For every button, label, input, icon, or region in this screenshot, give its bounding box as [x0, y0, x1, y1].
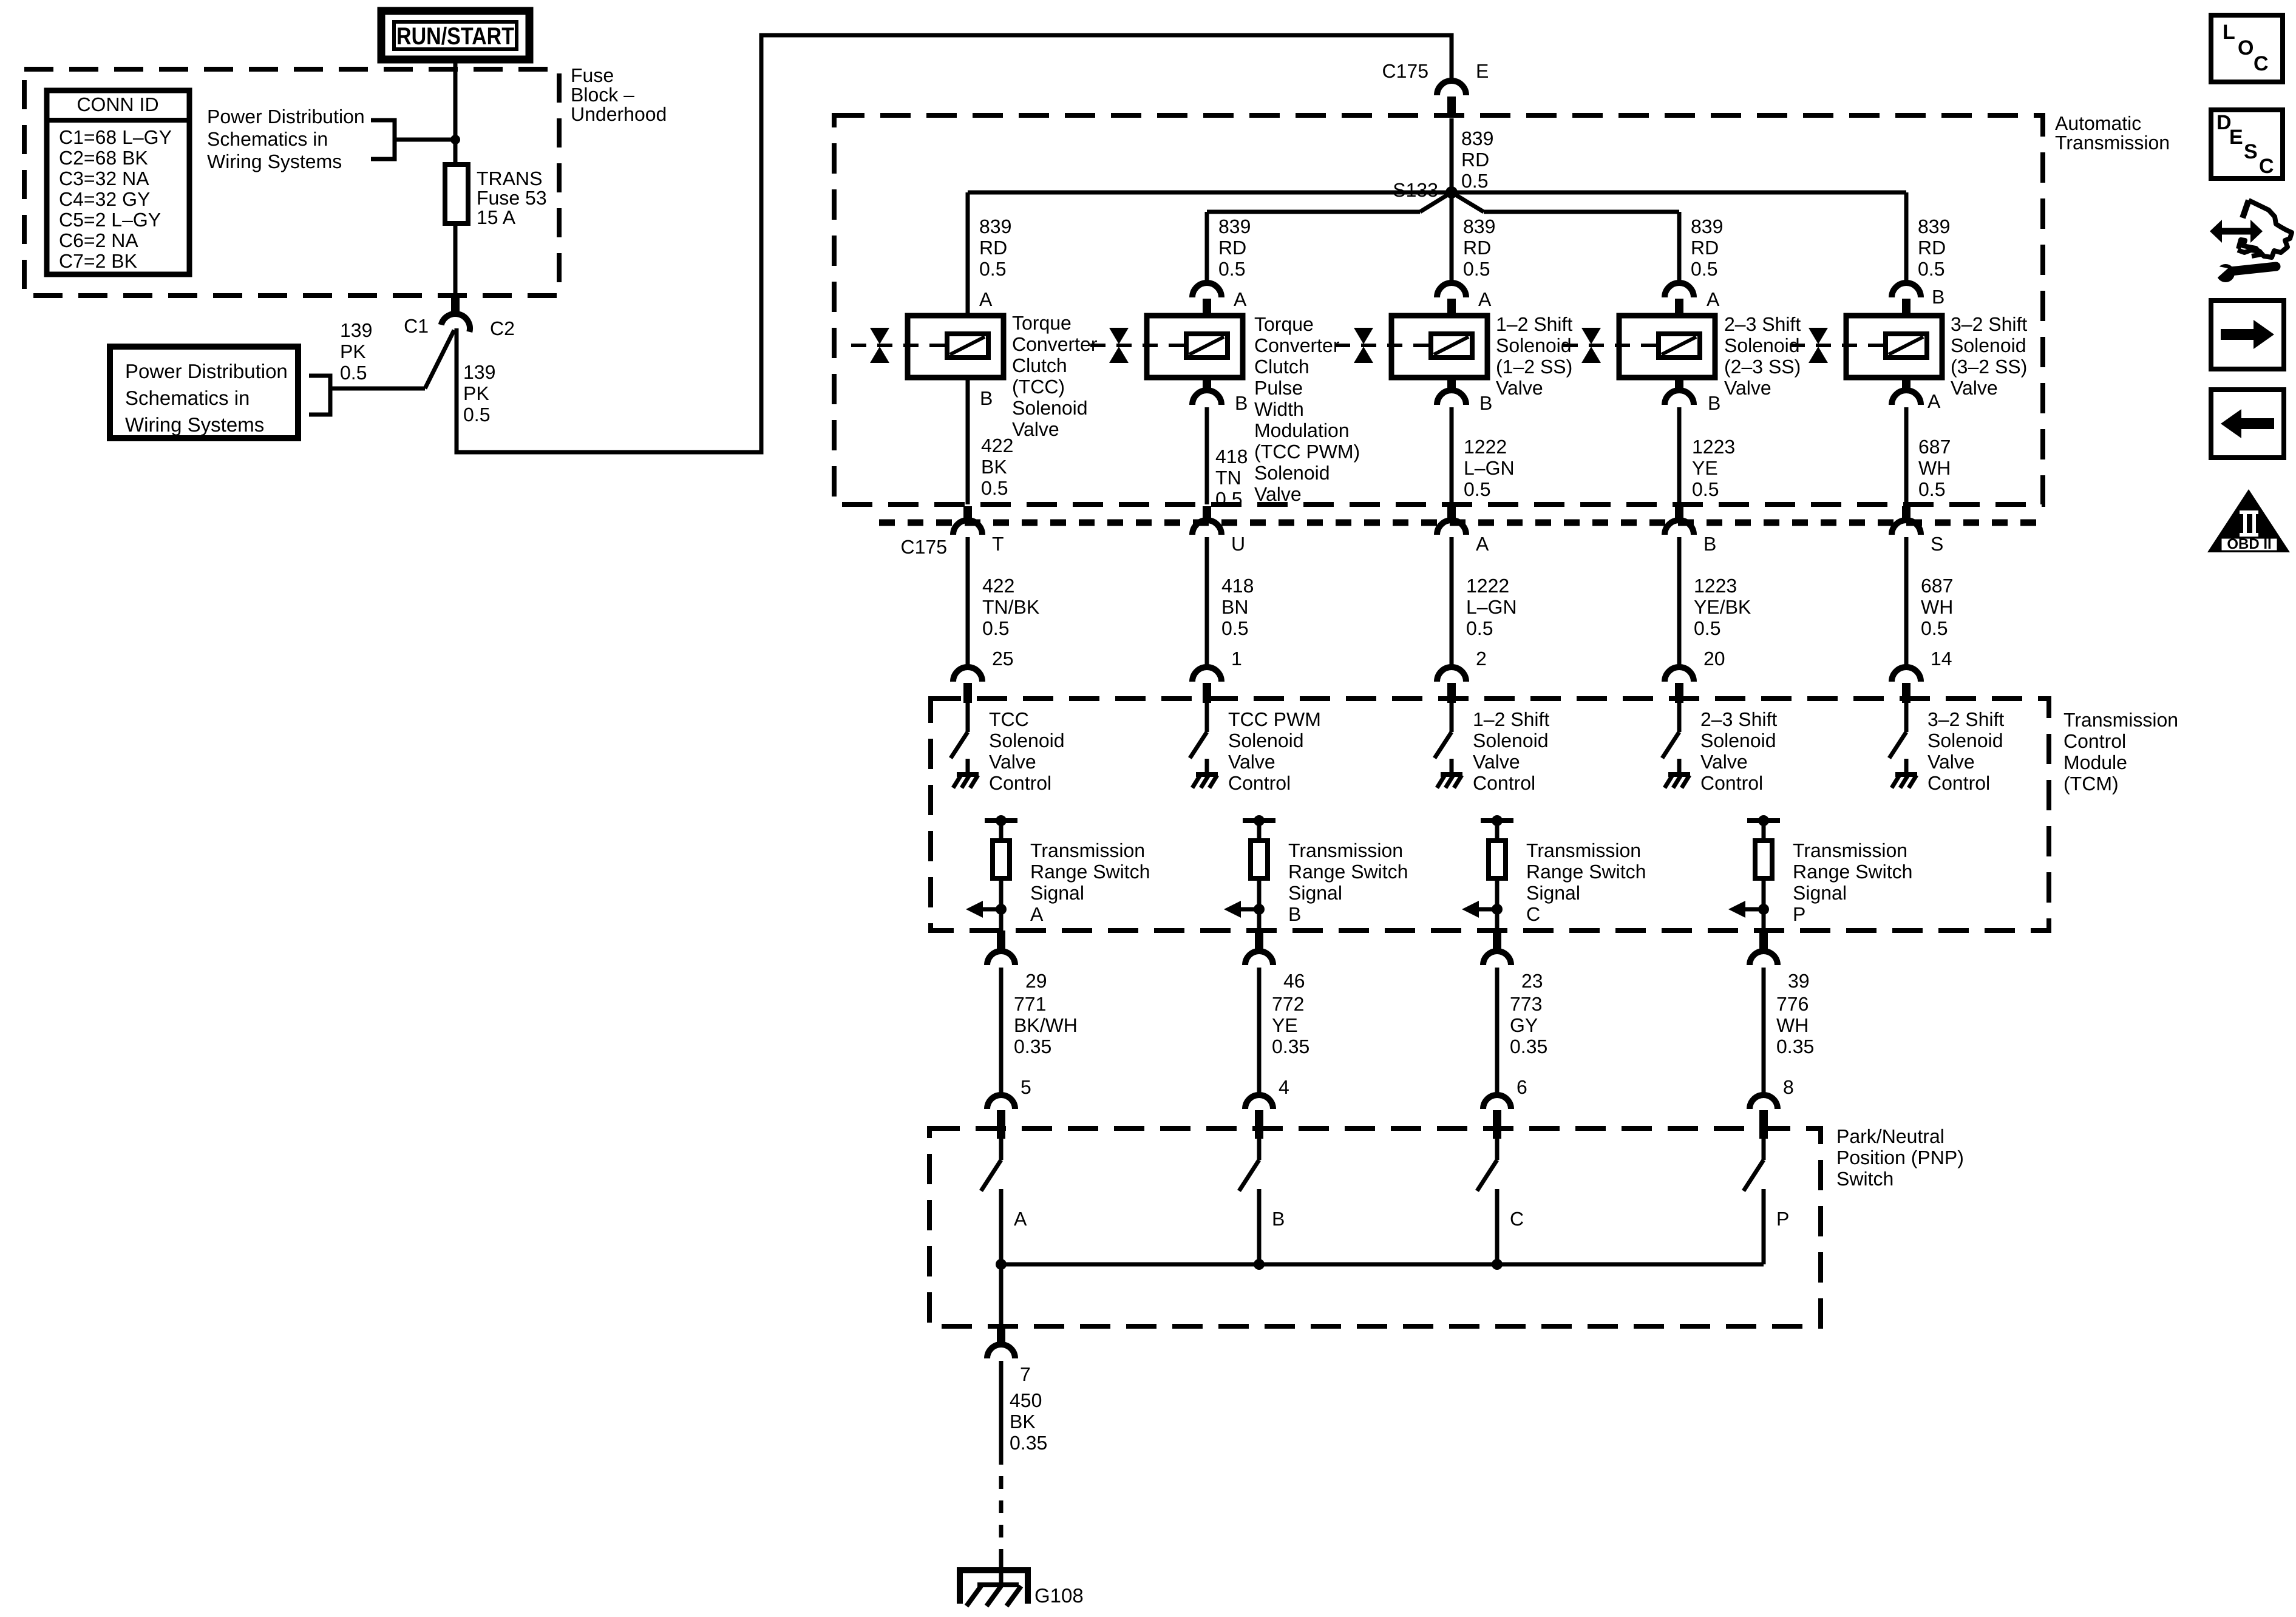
svg-text:T: T	[992, 533, 1004, 555]
svg-text:S: S	[2244, 140, 2258, 163]
svg-text:0.35: 0.35	[1510, 1036, 1547, 1057]
svg-text:8: 8	[1783, 1076, 1794, 1098]
svg-text:418: 418	[1215, 446, 1248, 467]
svg-text:(TCC): (TCC)	[1012, 376, 1065, 398]
svg-text:3–2 Shift: 3–2 Shift	[1927, 708, 2004, 730]
svg-text:L–GN: L–GN	[1464, 457, 1515, 479]
svg-text:1: 1	[1231, 648, 1242, 670]
svg-text:Module: Module	[2063, 751, 2127, 773]
svg-text:0.5: 0.5	[981, 477, 1008, 499]
svg-text:Solenoid: Solenoid	[1700, 730, 1776, 751]
svg-text:Valve: Valve	[1700, 751, 1748, 773]
svg-text:B: B	[980, 387, 993, 409]
svg-text:(TCC PWM): (TCC PWM)	[1254, 441, 1360, 463]
svg-text:Solenoid: Solenoid	[1228, 730, 1304, 751]
svg-text:C: C	[1526, 903, 1540, 925]
svg-text:Signal: Signal	[1793, 882, 1847, 904]
svg-text:46: 46	[1283, 970, 1305, 992]
svg-text:772: 772	[1272, 993, 1304, 1015]
svg-text:Solenoid: Solenoid	[1927, 730, 2003, 751]
svg-text:(TCM): (TCM)	[2063, 773, 2119, 795]
svg-text:RUN/START: RUN/START	[396, 23, 514, 50]
svg-text:Transmission: Transmission	[1526, 839, 1641, 861]
svg-text:YE: YE	[1692, 457, 1718, 479]
svg-text:P: P	[1793, 903, 1805, 925]
svg-text:Power Distribution: Power Distribution	[207, 106, 365, 127]
svg-text:A: A	[1234, 288, 1247, 310]
svg-text:Transmission: Transmission	[1793, 839, 1907, 861]
svg-text:C5=2 L–GY: C5=2 L–GY	[59, 209, 161, 231]
svg-text:C1=68 L–GY: C1=68 L–GY	[59, 126, 172, 148]
svg-text:TN/BK: TN/BK	[982, 596, 1039, 618]
svg-text:23: 23	[1521, 970, 1543, 992]
svg-text:Valve: Valve	[1951, 377, 1998, 399]
svg-text:0.5: 0.5	[1918, 258, 1944, 280]
svg-text:422: 422	[982, 575, 1014, 597]
svg-text:WH: WH	[1776, 1014, 1809, 1036]
svg-text:776: 776	[1776, 993, 1809, 1015]
svg-text:1222: 1222	[1464, 436, 1507, 458]
svg-text:139: 139	[463, 361, 495, 383]
svg-text:Switch: Switch	[1836, 1168, 1894, 1190]
svg-text:839: 839	[1691, 215, 1723, 237]
svg-text:Converter: Converter	[1012, 333, 1098, 355]
svg-text:20: 20	[1703, 648, 1725, 670]
svg-text:0.5: 0.5	[1464, 478, 1490, 500]
svg-text:RD: RD	[1463, 237, 1491, 259]
svg-text:25: 25	[992, 648, 1014, 670]
svg-text:C175: C175	[1382, 60, 1429, 82]
svg-text:839: 839	[1461, 127, 1493, 149]
svg-text:0.35: 0.35	[1776, 1036, 1814, 1057]
svg-text:Solenoid: Solenoid	[1724, 334, 1800, 356]
svg-text:CONN ID: CONN ID	[76, 93, 158, 115]
svg-text:0.5: 0.5	[1461, 170, 1488, 192]
svg-text:YE/BK: YE/BK	[1694, 596, 1751, 618]
svg-text:Control: Control	[1700, 772, 1763, 794]
svg-text:Signal: Signal	[1030, 882, 1084, 904]
svg-text:PK: PK	[463, 382, 489, 404]
svg-text:Solenoid: Solenoid	[1473, 730, 1549, 751]
svg-text:Wiring Systems: Wiring Systems	[125, 413, 264, 436]
svg-text:PK: PK	[340, 341, 366, 362]
svg-text:6: 6	[1517, 1076, 1527, 1098]
svg-text:Range Switch: Range Switch	[1793, 861, 1912, 883]
svg-text:P: P	[1776, 1208, 1789, 1230]
svg-text:0.5: 0.5	[1218, 258, 1245, 280]
svg-text:139: 139	[340, 319, 372, 341]
svg-text:0.5: 0.5	[463, 404, 490, 425]
svg-text:(2–3 SS): (2–3 SS)	[1724, 356, 1801, 378]
svg-text:Valve: Valve	[1473, 751, 1520, 773]
svg-text:Solenoid: Solenoid	[1496, 334, 1572, 356]
svg-text:450: 450	[1010, 1389, 1042, 1411]
svg-text:G108: G108	[1034, 1584, 1084, 1607]
svg-text:B: B	[1932, 286, 1944, 308]
svg-text:0.5: 0.5	[1221, 617, 1248, 639]
svg-text:Fuse: Fuse	[571, 64, 614, 86]
svg-text:Pulse: Pulse	[1254, 377, 1303, 399]
svg-text:773: 773	[1510, 993, 1542, 1015]
svg-text:TCC PWM: TCC PWM	[1228, 708, 1321, 730]
svg-text:C3=32 NA: C3=32 NA	[59, 168, 149, 189]
svg-text:Automatic: Automatic	[2055, 112, 2141, 134]
svg-text:Position (PNP): Position (PNP)	[1836, 1147, 1964, 1168]
svg-text:418: 418	[1221, 575, 1254, 597]
svg-text:0.5: 0.5	[1918, 478, 1945, 500]
svg-text:Valve: Valve	[1724, 377, 1771, 399]
svg-text:839: 839	[1918, 215, 1950, 237]
svg-text:7: 7	[1020, 1363, 1031, 1385]
svg-text:771: 771	[1014, 993, 1046, 1015]
svg-text:A: A	[979, 288, 993, 310]
svg-text:39: 39	[1788, 970, 1810, 992]
svg-text:Schematics in: Schematics in	[207, 128, 328, 150]
svg-text:0.5: 0.5	[1215, 488, 1242, 510]
svg-text:839: 839	[1218, 215, 1251, 237]
svg-text:14: 14	[1931, 648, 1952, 670]
svg-text:2–3 Shift: 2–3 Shift	[1724, 313, 1801, 335]
svg-text:687: 687	[1918, 436, 1951, 458]
svg-text:1223: 1223	[1694, 575, 1737, 597]
svg-text:A: A	[1030, 903, 1044, 925]
svg-text:Clutch: Clutch	[1012, 354, 1067, 376]
svg-text:0.5: 0.5	[1692, 478, 1719, 500]
svg-text:RD: RD	[1691, 237, 1719, 259]
svg-text:C175: C175	[901, 536, 948, 558]
svg-text:Clutch: Clutch	[1254, 356, 1309, 378]
svg-text:Valve: Valve	[1496, 377, 1543, 399]
svg-text:O: O	[2238, 36, 2254, 59]
svg-text:S133: S133	[1393, 179, 1438, 201]
svg-text:15 A: 15 A	[477, 206, 516, 228]
svg-text:C: C	[2254, 52, 2269, 75]
svg-text:Fuse 53: Fuse 53	[477, 187, 547, 209]
svg-text:29: 29	[1025, 970, 1047, 992]
svg-text:Schematics in: Schematics in	[125, 387, 250, 409]
svg-text:GY: GY	[1510, 1014, 1538, 1036]
svg-text:839: 839	[1463, 215, 1495, 237]
svg-text:BK/WH: BK/WH	[1014, 1014, 1078, 1036]
svg-text:BK: BK	[1010, 1411, 1036, 1432]
svg-text:Power Distribution: Power Distribution	[125, 360, 288, 382]
svg-text:422: 422	[981, 435, 1013, 456]
svg-text:1–2 Shift: 1–2 Shift	[1496, 313, 1572, 335]
svg-text:0.5: 0.5	[1691, 258, 1717, 280]
svg-text:0.5: 0.5	[982, 617, 1009, 639]
svg-text:Range Switch: Range Switch	[1526, 861, 1646, 883]
svg-text:C: C	[1510, 1208, 1524, 1230]
svg-text:TN: TN	[1215, 467, 1241, 489]
svg-text:C6=2 NA: C6=2 NA	[59, 229, 138, 251]
svg-text:A: A	[1476, 533, 1489, 555]
svg-text:839: 839	[979, 215, 1011, 237]
svg-text:Solenoid: Solenoid	[1254, 462, 1330, 484]
svg-text:2: 2	[1476, 648, 1487, 670]
svg-text:TCC: TCC	[989, 708, 1029, 730]
svg-text:0.35: 0.35	[1272, 1036, 1309, 1057]
svg-text:2–3 Shift: 2–3 Shift	[1700, 708, 1777, 730]
svg-text:C4=32 GY: C4=32 GY	[59, 188, 150, 210]
svg-text:Valve: Valve	[989, 751, 1036, 773]
svg-text:Solenoid: Solenoid	[1012, 397, 1088, 419]
svg-text:Solenoid: Solenoid	[989, 730, 1065, 751]
svg-text:0.35: 0.35	[1010, 1432, 1047, 1454]
svg-text:Transmission: Transmission	[2055, 132, 2170, 154]
svg-text:Control: Control	[1473, 772, 1535, 794]
svg-text:Control: Control	[1228, 772, 1291, 794]
svg-text:RD: RD	[1918, 237, 1946, 259]
svg-text:Valve: Valve	[1254, 483, 1302, 505]
svg-text:1–2 Shift: 1–2 Shift	[1473, 708, 1549, 730]
svg-text:BK: BK	[981, 456, 1007, 478]
svg-text:RD: RD	[1461, 149, 1489, 171]
svg-text:(3–2 SS): (3–2 SS)	[1951, 356, 2027, 378]
svg-text:Torque: Torque	[1012, 312, 1072, 334]
svg-text:Wiring Systems: Wiring Systems	[207, 151, 342, 172]
svg-text:Valve: Valve	[1228, 751, 1275, 773]
svg-text:0.35: 0.35	[1014, 1036, 1051, 1057]
svg-text:0.5: 0.5	[1921, 617, 1948, 639]
svg-text:Torque: Torque	[1254, 313, 1314, 335]
svg-text:A: A	[1927, 390, 1941, 412]
svg-text:Transmission: Transmission	[1030, 839, 1145, 861]
svg-text:L–GN: L–GN	[1466, 596, 1517, 618]
svg-text:Park/Neutral: Park/Neutral	[1836, 1125, 1944, 1147]
svg-text:C7=2 BK: C7=2 BK	[59, 250, 137, 272]
svg-text:BN: BN	[1221, 596, 1248, 618]
svg-text:Range Switch: Range Switch	[1288, 861, 1408, 883]
svg-text:Valve: Valve	[1012, 418, 1059, 440]
svg-text:1223: 1223	[1692, 436, 1735, 458]
svg-text:Solenoid: Solenoid	[1951, 334, 2026, 356]
svg-text:(1–2 SS): (1–2 SS)	[1496, 356, 1572, 378]
svg-text:Control: Control	[1927, 772, 1990, 794]
svg-text:U: U	[1231, 533, 1245, 555]
svg-text:Converter: Converter	[1254, 334, 1340, 356]
svg-text:E: E	[1476, 60, 1489, 82]
svg-text:Signal: Signal	[1288, 882, 1342, 904]
svg-text:TRANS: TRANS	[477, 168, 542, 189]
svg-text:0.5: 0.5	[979, 258, 1006, 280]
svg-text:A: A	[1707, 288, 1720, 310]
svg-text:A: A	[1478, 288, 1492, 310]
svg-text:B: B	[1479, 392, 1492, 414]
svg-text:0.5: 0.5	[340, 362, 367, 384]
svg-text:C2: C2	[490, 317, 515, 339]
svg-text:5: 5	[1021, 1076, 1031, 1098]
svg-text:0.5: 0.5	[1463, 258, 1490, 280]
svg-text:C1: C1	[404, 315, 429, 337]
svg-text:S: S	[1931, 533, 1943, 555]
svg-text:0.5: 0.5	[1694, 617, 1720, 639]
svg-text:Modulation: Modulation	[1254, 419, 1350, 441]
svg-text:B: B	[1703, 533, 1716, 555]
svg-text:Signal: Signal	[1526, 882, 1580, 904]
svg-text:A: A	[1014, 1208, 1027, 1230]
svg-text:L: L	[2223, 21, 2235, 44]
svg-text:B: B	[1288, 903, 1301, 925]
svg-text:WH: WH	[1918, 457, 1951, 479]
svg-text:OBD II: OBD II	[2227, 536, 2271, 552]
svg-text:4: 4	[1279, 1076, 1289, 1098]
svg-text:Range Switch: Range Switch	[1030, 861, 1150, 883]
svg-text:0.5: 0.5	[1466, 617, 1493, 639]
svg-text:1222: 1222	[1466, 575, 1509, 597]
svg-text:E: E	[2229, 126, 2243, 149]
svg-text:687: 687	[1921, 575, 1953, 597]
svg-text:B: B	[1272, 1208, 1285, 1230]
svg-text:B: B	[1235, 392, 1248, 414]
svg-text:YE: YE	[1272, 1014, 1298, 1036]
svg-text:WH: WH	[1921, 596, 1953, 618]
svg-text:Transmission: Transmission	[2063, 709, 2178, 731]
svg-text:Underhood: Underhood	[571, 103, 667, 125]
svg-text:Block –: Block –	[571, 84, 634, 106]
svg-text:Valve: Valve	[1927, 751, 1975, 773]
svg-text:Width: Width	[1254, 398, 1304, 420]
svg-text:B: B	[1708, 392, 1720, 414]
svg-text:3–2 Shift: 3–2 Shift	[1951, 313, 2027, 335]
svg-text:RD: RD	[979, 237, 1007, 259]
svg-text:Control: Control	[2063, 730, 2126, 752]
svg-text:C2=68 BK: C2=68 BK	[59, 147, 148, 169]
svg-text:Transmission: Transmission	[1288, 839, 1403, 861]
svg-text:RD: RD	[1218, 237, 1246, 259]
svg-text:Control: Control	[989, 772, 1051, 794]
svg-text:C: C	[2259, 155, 2274, 178]
